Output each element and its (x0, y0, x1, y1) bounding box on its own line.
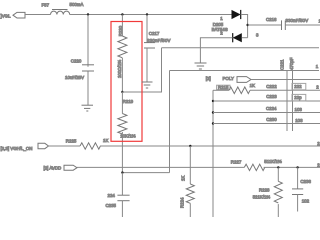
svg-text:F87: F87 (42, 3, 50, 8)
resistor R228 511K/1% (vertical) (253, 167, 283, 217)
svg-text:C224: C224 (266, 106, 277, 111)
node: jog to R219 branch (121, 171, 123, 173)
svg-text:100Ω/1%: 100Ω/1% (117, 60, 122, 78)
svg-text:511K/1%: 511K/1% (264, 159, 282, 164)
wire: jog horizontal y172.6 (122, 172, 169, 174)
svg-text:103: 103 (295, 107, 303, 112)
diode D205 BAT54S top (pin1 anode) (212, 10, 241, 36)
svg-text:222: 222 (294, 84, 302, 89)
capacitor C235 224 (106, 173, 130, 217)
connector tag AVDD [2] (44, 165, 78, 170)
wire: VGH rail right (100, 145, 320, 147)
svg-text:[2,3] VGH/L_ON: [2,3] VGH/L_ON (1, 146, 33, 151)
resistor R227 511K/1% (horizontal) (231, 159, 282, 170)
node on bus at C230 row (212, 122, 214, 124)
wire: bottom diode anode to node3 vertical (242, 37, 248, 39)
capacitor plate bus A (vertical, C221) (286, 71, 288, 131)
svg-text:22p: 22p (294, 95, 302, 100)
diode D205 bottom (pin2, pointing left) (233, 33, 242, 42)
node 3 junction (246, 24, 248, 26)
svg-text:1K: 1K (181, 176, 186, 181)
wire: gray net y48 to right edge (162, 47, 320, 49)
wire: C230 row (213, 123, 320, 125)
resistor R224 1K (vertical) (180, 146, 195, 217)
svg-text:C221: C221 (280, 59, 285, 70)
svg-text:10uF/25V: 10uF/25V (65, 75, 84, 80)
capacitor C224 103 (266, 106, 302, 112)
svg-text:470pF: 470pF (289, 57, 294, 70)
svg-text:R224: R224 (180, 197, 185, 208)
capacitor C236 102 (292, 167, 311, 211)
svg-text:C217: C217 (149, 31, 160, 36)
svg-text:330nF/50V: 330nF/50V (286, 18, 309, 23)
connector tag VGH/L_ON [2,3] (1, 143, 49, 151)
wire: VGL rail left segment (25, 14, 51, 16)
wire: VGH rail left (49, 145, 81, 147)
svg-text:224: 224 (108, 193, 116, 198)
connector tag VGL (1, 12, 26, 18)
svg-text:511K/1%: 511K/1% (253, 195, 271, 200)
svg-text:C230: C230 (266, 117, 277, 122)
wire: mid tap to right (122, 48, 161, 92)
wire: C223 row (213, 100, 320, 102)
wire: VGL rail main segment (70, 14, 232, 16)
svg-text:R225: R225 (66, 138, 77, 143)
node junction at C217 branch (146, 13, 148, 15)
svg-text:500mA: 500mA (70, 2, 84, 7)
node: R224 branch on VGH rail (189, 145, 191, 147)
wire: bottom diode cathode to ground (200, 38, 232, 63)
wire: POLY row (251, 79, 320, 81)
node junction at R220 branch (121, 13, 123, 15)
svg-text:R227: R227 (231, 159, 242, 164)
capacitor C217 330nF/50V (144, 15, 171, 83)
node junction at C220 branch (87, 13, 89, 15)
svg-text:[2] AVDD: [2] AVDD (44, 166, 62, 171)
vertical bus (POLY section) (212, 90, 214, 217)
svg-text:C223: C223 (266, 94, 277, 99)
fuse F87 500mA (42, 2, 84, 15)
node: R220/R219 mid tap (121, 91, 123, 93)
connector tag POLY [2] (206, 76, 251, 83)
ground (C217) (142, 82, 153, 88)
svg-text:C220: C220 (71, 58, 82, 63)
svg-text:]VGL: ]VGL (1, 14, 12, 19)
node: R228 branch (277, 166, 279, 168)
svg-text:C236: C236 (300, 179, 311, 184)
svg-text:R220: R220 (118, 25, 123, 36)
resistor R225 1K (horizontal) (66, 138, 109, 149)
ground (C220) (82, 105, 94, 111)
resistor R215 1K (horizontal, boxed label) (213, 83, 320, 94)
node: C236 branch (296, 166, 298, 168)
wire: AVDD rail right (264, 166, 320, 168)
wire: jog vertical x169.5 (169, 71, 171, 173)
capacitor C230 103 (266, 117, 303, 123)
resistor R220 100ohm/1% (vertical) (117, 15, 127, 93)
svg-text:R228: R228 (259, 188, 270, 193)
ground (D205) (195, 63, 207, 69)
svg-text:POLY: POLY (223, 76, 234, 81)
wire: AVDD rail left (77, 166, 244, 168)
svg-text:C235: C235 (106, 203, 117, 208)
capacitor C223 22p (266, 94, 306, 101)
capacitor C216 330nF/50V (horizontal) (248, 17, 320, 30)
node on bus at C224 row (212, 111, 214, 113)
svg-text:R215: R215 (218, 85, 229, 90)
svg-text:R219: R219 (123, 99, 134, 104)
capacitor C220 10uF/25V (65, 15, 94, 106)
svg-text:C222: C222 (266, 84, 277, 89)
svg-text:1K: 1K (103, 138, 108, 143)
resistor R219 10K/1% (vertical) (118, 92, 136, 173)
svg-text:102: 102 (302, 199, 310, 204)
svg-text:[2]: [2] (206, 76, 211, 81)
wire: C224 row (213, 112, 320, 114)
capacitor C222 222 (266, 83, 306, 89)
svg-text:103: 103 (295, 118, 303, 123)
capacitor plate bus B (vertical) (292, 71, 294, 131)
wire: poly net y70.5 (170, 70, 320, 72)
svg-text:1K: 1K (250, 83, 255, 88)
svg-text:C216: C216 (266, 17, 277, 22)
highlight red box around R220/R219 (111, 22, 142, 142)
wire: top diode cathode to node3 (241, 15, 248, 38)
node on bus at C223 row (212, 100, 214, 102)
